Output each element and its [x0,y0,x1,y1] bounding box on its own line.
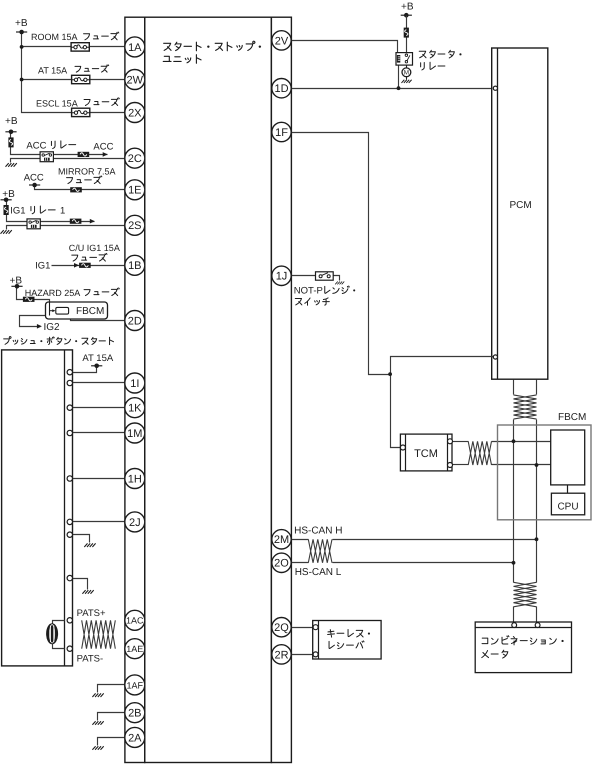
wire 2A to ground [98,738,125,746]
terminal push-start t6 [67,519,72,524]
svg-text:PCM: PCM [510,200,532,211]
wire HS-CAN L to bus [333,562,514,564]
wire PATS- to antenna coil [53,644,65,649]
twisted pair PCM to FBCM (vertical) [514,395,537,419]
wire 2Q to keyless receiver [292,627,313,629]
wire +B through hazard fuse into FBCM [17,287,50,316]
ground (2B) [92,721,103,725]
TCM right strip line [447,435,449,471]
wire 1J to NOT-P switch [292,275,316,277]
svg-text:IG1: IG1 [35,261,50,272]
relay starter [396,53,413,66]
label keyless receiver line2 [329,641,364,649]
transistor inside FBCM [50,310,53,312]
pin 1AF [125,675,145,695]
wire push start to ground 1 [73,535,90,543]
pin 2R [272,645,291,664]
power tap ACC (mirror fuse) [29,183,40,188]
pin 2V [272,31,291,50]
pin 1B [125,255,145,275]
terminal push-start t7 [67,532,72,537]
relay ACC [40,152,53,162]
arrow IG1 feed out [90,219,95,224]
wire to 2J [73,521,125,523]
module FBCM (hazard) [46,302,108,319]
wire twisted pair to FBCM module L [492,464,551,466]
svg-text:ESCL 15A: ESCL 15A [36,99,78,109]
fuse ACC output [78,152,89,156]
arrow IG1 feed in [74,263,79,268]
ground (NOT-P switch) [335,281,344,284]
svg-text:1AF: 1AF [127,680,144,690]
svg-text:1M: 1M [127,428,142,440]
svg-text:+B: +B [2,189,15,200]
wire NOT-P switch to ground [334,276,340,281]
wire TCM out L [453,464,469,466]
junction starter coil / 1D [397,86,401,90]
svg-text:M: M [404,70,409,77]
ground (starter motor) [401,80,411,83]
pin 2S [125,215,145,235]
twisted pair HS-CAN [308,539,332,563]
arrow ACC feed out [103,152,108,157]
label push button start [4,337,114,345]
wire CAN-H bus middle [536,420,538,583]
ground (IG1 relay) [1,230,12,234]
svg-text:ACC: ACC [93,142,113,153]
svg-text:+B: +B [15,18,28,29]
wire +B feed to 2X [22,33,125,113]
junction HS-CAN L [512,561,516,565]
wire to 1H [73,478,125,480]
svg-text:1A: 1A [128,42,142,54]
antenna coil (immobilizer) [47,624,58,644]
PCM connector strip line [497,49,499,380]
wire twisted pair to FBCM module H [492,441,551,443]
wire 1F down to TCM junction [292,133,391,375]
TCM left strip line [405,435,407,471]
wire ACC to 1E [35,185,125,190]
start-stop unit left connector strip [125,17,145,762]
label start-stop unit line1 [164,41,261,51]
wire block to CPU [567,485,569,494]
wire IG1 relay output with fuse [41,221,95,223]
svg-text:1AE: 1AE [126,644,143,654]
wire 2M HS-CAN H [292,539,309,541]
wire push start to ground 2 [73,579,88,590]
wire PATS+ to antenna coil [53,621,65,625]
svg-text:PATS+: PATS+ [77,608,106,619]
svg-text:2C: 2C [128,153,142,165]
terminal TCM right 1 [448,439,453,444]
wire push start to AT 15A tap [73,366,97,373]
svg-text:2Q: 2Q [274,622,289,634]
pin 1F [272,122,291,141]
pin 1AE [125,639,145,659]
svg-text:2J: 2J [129,517,141,529]
pin 2J [125,512,145,532]
wire 1D to PCM [292,88,494,90]
twisted pair TCM to FBCM [468,441,491,465]
pin 2W [125,70,145,90]
arrow IG2 out [37,324,42,329]
svg-text:IG2: IG2 [44,322,61,333]
svg-text:ROOM 15A: ROOM 15A [31,32,78,42]
wire TCM out H [453,441,469,443]
pin 2X [125,103,145,123]
wire starter relay to motor [406,66,408,69]
svg-text:2R: 2R [274,649,288,661]
svg-text:1E: 1E [128,185,141,197]
twisted pair to combination meter (vertical) [514,582,537,607]
wire +B to starter relay switch [406,16,408,53]
push button start switch body [2,350,73,666]
svg-text:+B: +B [5,116,18,127]
svg-text:1J: 1J [276,271,288,283]
PCM body [492,48,548,379]
power tap AT 15A [91,364,102,369]
svg-text:HS-CAN L: HS-CAN L [295,567,342,578]
wire to 1A [22,46,125,48]
svg-text:2W: 2W [127,74,144,86]
wire ACC relay coil to ground [11,159,41,163]
svg-text:1H: 1H [128,473,142,485]
fuse on starter feed [404,28,408,37]
pin 1M [125,423,145,443]
wire 2V to starter relay coil [292,41,398,53]
meter strip line [476,627,572,629]
svg-text:ACC: ACC [26,141,46,152]
label starter relay line2 [421,62,445,70]
wire CAN-L bus middle [513,420,515,583]
junction HS-CAN H [535,537,539,541]
CPU block [551,493,584,515]
start-stop unit body [145,17,272,762]
terminal keyless 1 [313,625,318,630]
relay IG1 [27,219,40,229]
wire PCM to TCM with junction [391,357,494,448]
label start-stop unit line2 [163,55,201,64]
wire CAN-H bus upper [536,380,538,395]
svg-text:IG1: IG1 [10,206,25,217]
power tap +B (top left) [16,30,27,35]
label combination meter line2 [482,650,508,658]
wire 2B to ground [98,713,125,721]
svg-text:2M: 2M [274,534,289,546]
terminal push-start t2 [67,380,72,385]
wire ACC relay to 2C [54,158,125,160]
fuse on +B feed (IG1 relay) [4,205,8,214]
wire to 1K [73,407,125,409]
terminal TCM left [400,445,405,450]
start-stop unit right connector strip [271,17,291,762]
pin 1I [125,373,145,393]
svg-text:AT 15A: AT 15A [38,66,67,76]
wire motor to ground [406,77,408,80]
pin 1J [272,266,291,285]
svg-text:PATS-: PATS- [77,654,104,665]
svg-text:TCM: TCM [414,448,438,460]
svg-text:HAZARD 25A: HAZARD 25A [25,288,81,298]
power tap +B (IG1 relay) [1,198,12,203]
svg-text:CPU: CPU [557,502,578,513]
label starter relay line1 [419,50,461,58]
ground (push start 1) [84,543,95,547]
svg-text:HS-CAN H: HS-CAN H [294,526,342,537]
fuse C/U IG1 15A [80,263,91,267]
svg-text:2D: 2D [128,315,142,327]
fuse ROOM 15A [71,43,89,51]
FBCM internal block [551,430,585,485]
pin 1D [272,79,291,98]
fuse IG1 output [70,219,81,223]
module FBCM (right) [498,425,592,520]
pin 2A [125,727,145,747]
wire FBCM internal input [49,303,51,316]
wire IG1 relay coil to ground [7,226,27,230]
pin 2C [125,148,145,168]
wire starter relay coil to 1D line [398,66,400,89]
pin 2B [125,703,145,723]
wire FBCM output to 2D [69,311,125,321]
pin 1A [125,37,145,57]
terminal push-start t1 [67,370,72,375]
ground (push start 2) [82,590,93,594]
pin 1K [125,398,145,418]
svg-text:ACC: ACC [24,172,44,183]
pin 2O [272,553,291,572]
push button start connector strip line [64,350,66,666]
junction on +B feed at 2W branch [20,78,24,82]
terminal PCM 1D [493,86,497,90]
terminal PCM TCM-line [493,355,497,359]
svg-text:+B: +B [401,2,414,13]
svg-text:1AC: 1AC [126,616,144,626]
svg-text:FBCM: FBCM [76,306,104,317]
pin 2Q [272,618,291,637]
fuse MIRROR 7.5A [71,188,82,192]
wire +B to IG1 relay [7,200,27,222]
terminal push-start t9 [67,618,72,623]
svg-text:1D: 1D [274,83,288,95]
svg-text:AT 15A: AT 15A [82,353,113,364]
wire to 2W [22,79,125,81]
pin 1H [125,469,145,489]
terminal meter 2 [535,623,540,628]
terminal keyless 2 [313,652,318,657]
keyless strip line [318,621,320,659]
svg-text:2X: 2X [128,107,142,119]
combination meter body [475,622,571,673]
svg-text:MIRROR 7.5A: MIRROR 7.5A [58,167,116,177]
svg-text:2B: 2B [128,708,141,720]
power tap +B (hazard) [11,284,22,289]
fuse HAZARD 25A [23,297,34,301]
keyless receiver body [313,621,381,660]
svg-text:C/U IG1 15A: C/U IG1 15A [69,243,120,253]
svg-text:2A: 2A [128,732,142,744]
wire FBCM to IG2 [20,316,50,327]
svg-text:1F: 1F [275,127,288,139]
svg-text:2O: 2O [274,558,289,570]
fuse AT 15A [72,75,90,83]
terminal meter 1 [512,623,517,628]
pin 1E [125,180,145,200]
wire +B to ACC relay coil [11,132,41,155]
power tap +B (starter relay) [401,13,412,18]
svg-text:NOT-P: NOT-P [294,286,323,297]
pin 2M [272,530,291,549]
pin 1AC [125,610,145,630]
wire to 1M [73,432,125,434]
terminal push-start t3 [67,405,72,410]
twisted pair PATS to 1AC/1AE [82,620,116,648]
ground (1AF) [92,693,103,697]
label keyless receiver line1 [328,629,370,637]
fuse ESCL 15A [72,108,90,116]
label combination meter line1 [482,636,564,645]
svg-text:2V: 2V [275,35,289,47]
terminal push-start t10 [67,646,72,651]
switch NOT-P range [316,272,334,280]
wire IG1 to 1B [52,265,125,267]
terminal push-start t5 [67,476,72,481]
wire HS-CAN H to bus [333,539,537,541]
label ACC relay (katakana) [51,141,75,149]
svg-text:1K: 1K [128,403,142,415]
fuse on +B feed (ACC relay) [9,138,13,147]
ground (ACC relay) [6,163,17,167]
wire IG1 relay to 2S [41,225,125,227]
wire 2O HS-CAN L [292,562,309,564]
motor M (starter) [402,68,411,77]
wire CAN-L bus upper [513,380,515,395]
svg-text:FBCM: FBCM [558,412,586,423]
wire CAN-H bus lower [536,607,538,623]
junction 1F / PCM-TCM [388,372,392,376]
svg-text:2S: 2S [128,220,141,232]
junction CAN-H at FBCM wire [535,463,539,467]
svg-text:1: 1 [60,206,65,217]
terminal TCM right 2 [448,463,453,468]
terminal push-start t8 [67,575,72,580]
ground (2A) [92,746,103,750]
svg-text:1B: 1B [128,260,141,272]
wire to 1I [73,382,125,384]
wire CAN-L bus lower [513,607,515,623]
junction CAN-L at FBCM wire [512,439,516,443]
pin 2D [125,311,145,331]
relay coil inside FBCM [56,307,69,314]
terminal push-start t4 [67,430,72,435]
wire 1AF to ground [98,685,125,693]
wire 2R to keyless receiver [292,654,313,656]
TCM body [400,434,452,471]
power tap +B (ACC relay) [5,130,16,135]
junction on +B feed at 1A branch [20,45,24,49]
svg-text:1I: 1I [130,378,139,390]
wire ACC relay output with fuse [54,154,108,156]
